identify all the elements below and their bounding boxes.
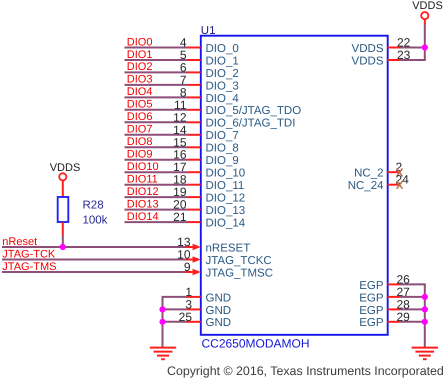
svg-text:100k: 100k bbox=[83, 215, 108, 227]
pin 28 stub EGP bbox=[388, 308, 400, 310]
svg-text:DIO_14: DIO_14 bbox=[206, 218, 246, 230]
svg-text:24: 24 bbox=[396, 173, 410, 187]
svg-text:EGP: EGP bbox=[359, 292, 384, 304]
svg-text:DIO11: DIO11 bbox=[127, 174, 158, 186]
wire net DIO3 bbox=[125, 84, 188, 86]
junction EGP row 21 bbox=[422, 306, 428, 312]
wire net DIO6 bbox=[125, 121, 188, 123]
pin 3 stub GND bbox=[187, 308, 201, 310]
pin 5 stub bbox=[188, 59, 201, 61]
junction GND pin3 bbox=[159, 306, 165, 312]
wire net DIO8 bbox=[125, 146, 188, 148]
svg-text:DIO_2: DIO_2 bbox=[206, 68, 239, 80]
pin 13 stub bbox=[186, 246, 194, 248]
junction EGP row 22 bbox=[422, 319, 428, 325]
pin 13 arrowhead bbox=[193, 244, 201, 251]
svg-text:JTAG-TMS: JTAG-TMS bbox=[2, 261, 56, 273]
svg-text:EGP: EGP bbox=[359, 317, 384, 329]
pin 18 stub bbox=[188, 184, 201, 186]
pin 22 stub VDDS bbox=[388, 47, 400, 49]
wire VDDS vertical bbox=[424, 24, 426, 61]
wire EGP vertical bus bbox=[424, 284, 426, 347]
pin 21 stub bbox=[188, 221, 201, 223]
wire net DIO4 bbox=[125, 96, 188, 98]
pin 26 stub EGP bbox=[388, 283, 400, 285]
svg-text:DIO7: DIO7 bbox=[127, 124, 153, 136]
svg-text:DIO_7: DIO_7 bbox=[206, 130, 239, 142]
wire net DIO11 bbox=[125, 184, 188, 186]
wire net DIO2 bbox=[125, 71, 188, 73]
svg-text:CC2650MODAMOH: CC2650MODAMOH bbox=[202, 337, 310, 351]
wire net DIO9 bbox=[125, 159, 188, 161]
pin 17 stub bbox=[188, 171, 201, 173]
wire GND vertical bus bbox=[162, 297, 164, 347]
pin 23 stub VDDS bbox=[388, 59, 400, 61]
wire R28 to nReset bbox=[62, 236, 64, 248]
svg-text:VDDS: VDDS bbox=[50, 162, 81, 174]
svg-text:GND: GND bbox=[206, 305, 232, 317]
svg-text:GND: GND bbox=[206, 292, 232, 304]
wire net DIO0 bbox=[125, 47, 188, 49]
pin 29 stub EGP bbox=[388, 321, 400, 323]
svg-text:DIO_0: DIO_0 bbox=[206, 43, 239, 55]
svg-text:DIO9: DIO9 bbox=[127, 149, 153, 161]
pin 9 stub bbox=[186, 271, 194, 273]
wire net JTAG-TCK bbox=[2, 259, 190, 261]
svg-text:DIO3: DIO3 bbox=[127, 74, 153, 86]
junction VDDS pin22 bbox=[422, 44, 428, 50]
svg-text:DIO10: DIO10 bbox=[127, 161, 159, 173]
ground symbol right bbox=[412, 348, 438, 360]
resistor R28 body bbox=[58, 197, 69, 222]
svg-text:DIO12: DIO12 bbox=[127, 186, 159, 198]
wire GND pin 1 bbox=[162, 296, 187, 298]
pin 25 stub GND bbox=[187, 321, 201, 323]
svg-text:NC_2: NC_2 bbox=[354, 168, 383, 180]
svg-text:DIO_12: DIO_12 bbox=[206, 193, 246, 205]
pin 12 stub bbox=[188, 121, 201, 123]
power symbol VDDS top-right bbox=[424, 19, 426, 24]
pin 11 stub bbox=[188, 109, 201, 111]
wire EGP pin 26 bbox=[400, 283, 426, 285]
svg-text:25: 25 bbox=[179, 310, 193, 324]
wire VDDS pin 22 bbox=[399, 47, 426, 49]
pin 6 stub bbox=[188, 71, 201, 73]
pin 4 stub bbox=[188, 47, 201, 49]
svg-text:9: 9 bbox=[184, 260, 191, 274]
pin 24 stub NC_24 bbox=[388, 184, 400, 186]
wire net DIO14 bbox=[125, 221, 188, 223]
wire net JTAG-TMS bbox=[2, 271, 190, 273]
pin 1 stub GND bbox=[187, 296, 201, 298]
resistor R28 pin 2 bbox=[62, 222, 64, 236]
svg-text:DIO4: DIO4 bbox=[127, 86, 153, 98]
pin 2 stub NC_2 bbox=[388, 171, 400, 173]
svg-text:DIO5: DIO5 bbox=[127, 99, 153, 111]
wire EGP pin 28 bbox=[400, 308, 426, 310]
wire net nReset bbox=[2, 246, 190, 248]
svg-text:VDDS: VDDS bbox=[412, 0, 443, 12]
svg-text:DIO_4: DIO_4 bbox=[206, 93, 240, 105]
svg-text:DIO_1: DIO_1 bbox=[206, 55, 239, 67]
svg-text:DIO_10: DIO_10 bbox=[206, 168, 246, 180]
svg-text:nRESET: nRESET bbox=[206, 242, 251, 254]
svg-text:NC_24: NC_24 bbox=[348, 180, 384, 192]
svg-text:JTAG_TCKC: JTAG_TCKC bbox=[206, 255, 272, 267]
wire net DIO12 bbox=[125, 196, 188, 198]
wire EGP pin 29 bbox=[400, 321, 426, 323]
wire net DIO10 bbox=[125, 171, 188, 173]
svg-text:DIO8: DIO8 bbox=[127, 136, 153, 148]
svg-text:EGP: EGP bbox=[359, 280, 384, 292]
svg-text:R28: R28 bbox=[83, 200, 104, 212]
svg-text:DIO_11: DIO_11 bbox=[206, 180, 245, 192]
resistor R28 pin 1 bbox=[62, 180, 64, 197]
pin 20 stub bbox=[188, 209, 201, 211]
svg-text:DIO_13: DIO_13 bbox=[206, 205, 246, 217]
wire net DIO5 bbox=[125, 109, 188, 111]
wire net DIO1 bbox=[125, 59, 188, 61]
pin 8 stub bbox=[188, 96, 201, 98]
junction EGP row 20 bbox=[422, 294, 428, 300]
svg-text:JTAG-TCK: JTAG-TCK bbox=[2, 248, 56, 260]
svg-text:DIO6: DIO6 bbox=[127, 111, 153, 123]
junction GND pin25 bbox=[159, 319, 165, 325]
svg-text:DIO14: DIO14 bbox=[127, 211, 159, 223]
svg-text:29: 29 bbox=[397, 310, 411, 324]
pin 19 stub bbox=[188, 196, 201, 198]
pin 7 stub bbox=[188, 84, 201, 86]
pin 10 arrowhead bbox=[193, 256, 201, 263]
pin 10 stub bbox=[186, 259, 194, 261]
pin 16 stub bbox=[188, 159, 201, 161]
svg-text:DIO0: DIO0 bbox=[127, 36, 153, 48]
svg-text:EGP: EGP bbox=[359, 305, 384, 317]
svg-text:DIO_3: DIO_3 bbox=[206, 80, 239, 92]
svg-text:DIO1: DIO1 bbox=[127, 49, 153, 61]
pin 9 arrowhead bbox=[193, 269, 201, 276]
svg-text:21: 21 bbox=[173, 210, 187, 224]
svg-text:DIO_8: DIO_8 bbox=[206, 143, 239, 155]
no-connect X pin 2 bbox=[397, 169, 403, 177]
no-connect X pin 24 bbox=[397, 181, 403, 189]
svg-text:nReset: nReset bbox=[2, 236, 37, 248]
svg-text:U1: U1 bbox=[201, 25, 216, 37]
svg-text:DIO_9: DIO_9 bbox=[206, 155, 239, 167]
svg-text:DIO2: DIO2 bbox=[127, 61, 153, 73]
wire EGP pin 27 bbox=[400, 296, 426, 298]
pin 27 stub EGP bbox=[388, 296, 400, 298]
pin 15 stub bbox=[188, 146, 201, 148]
wire VDDS pin 23 bbox=[399, 59, 426, 61]
svg-text:Copyright © 2016, Texas Instru: Copyright © 2016, Texas Instruments Inco… bbox=[167, 364, 443, 378]
svg-text:JTAG_TMSC: JTAG_TMSC bbox=[206, 267, 274, 279]
wire net DIO7 bbox=[125, 134, 188, 136]
wire GND pin 3 bbox=[162, 308, 187, 310]
svg-text:DIO_5/JTAG_TDO: DIO_5/JTAG_TDO bbox=[206, 105, 302, 117]
svg-text:DIO13: DIO13 bbox=[127, 198, 159, 210]
svg-text:VDDS: VDDS bbox=[352, 43, 384, 55]
svg-text:DIO_6/JTAG_TDI: DIO_6/JTAG_TDI bbox=[206, 118, 296, 130]
wire GND pin 25 bbox=[162, 321, 187, 323]
pin 14 stub bbox=[188, 134, 201, 136]
ground symbol left bbox=[150, 348, 176, 360]
svg-text:GND: GND bbox=[206, 317, 232, 329]
junction nReset/R28 bbox=[60, 244, 66, 250]
IC body U1 bbox=[201, 36, 388, 335]
wire net DIO13 bbox=[125, 209, 188, 211]
svg-text:VDDS: VDDS bbox=[352, 55, 384, 67]
svg-text:23: 23 bbox=[397, 48, 411, 62]
